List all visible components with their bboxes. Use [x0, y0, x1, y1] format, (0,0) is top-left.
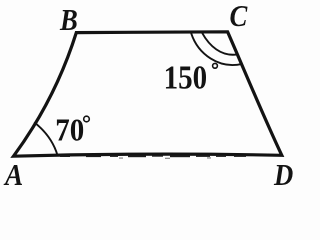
trapezoid ABCD outline (A bottom-left, B top-left, C top-right, D bottom-right) — [14, 32, 282, 156]
angle inner arc at C (150 degrees) — [202, 33, 237, 55]
degree symbol of 150 — [213, 63, 218, 68]
svg-text:70: 70 — [55, 111, 84, 147]
degree symbol of 70 — [84, 116, 90, 122]
svg-text:D: D — [273, 158, 293, 189]
angle arc at A (70 degrees) — [34, 122, 57, 155]
svg-text:B: B — [59, 3, 78, 37]
angle outer arc at C (150 degrees) — [191, 33, 242, 65]
svg-text:150: 150 — [164, 59, 208, 96]
svg-text:C: C — [230, 0, 248, 34]
scan speckles under bottom edge — [60, 155, 246, 159]
svg-text:A: A — [3, 158, 23, 189]
